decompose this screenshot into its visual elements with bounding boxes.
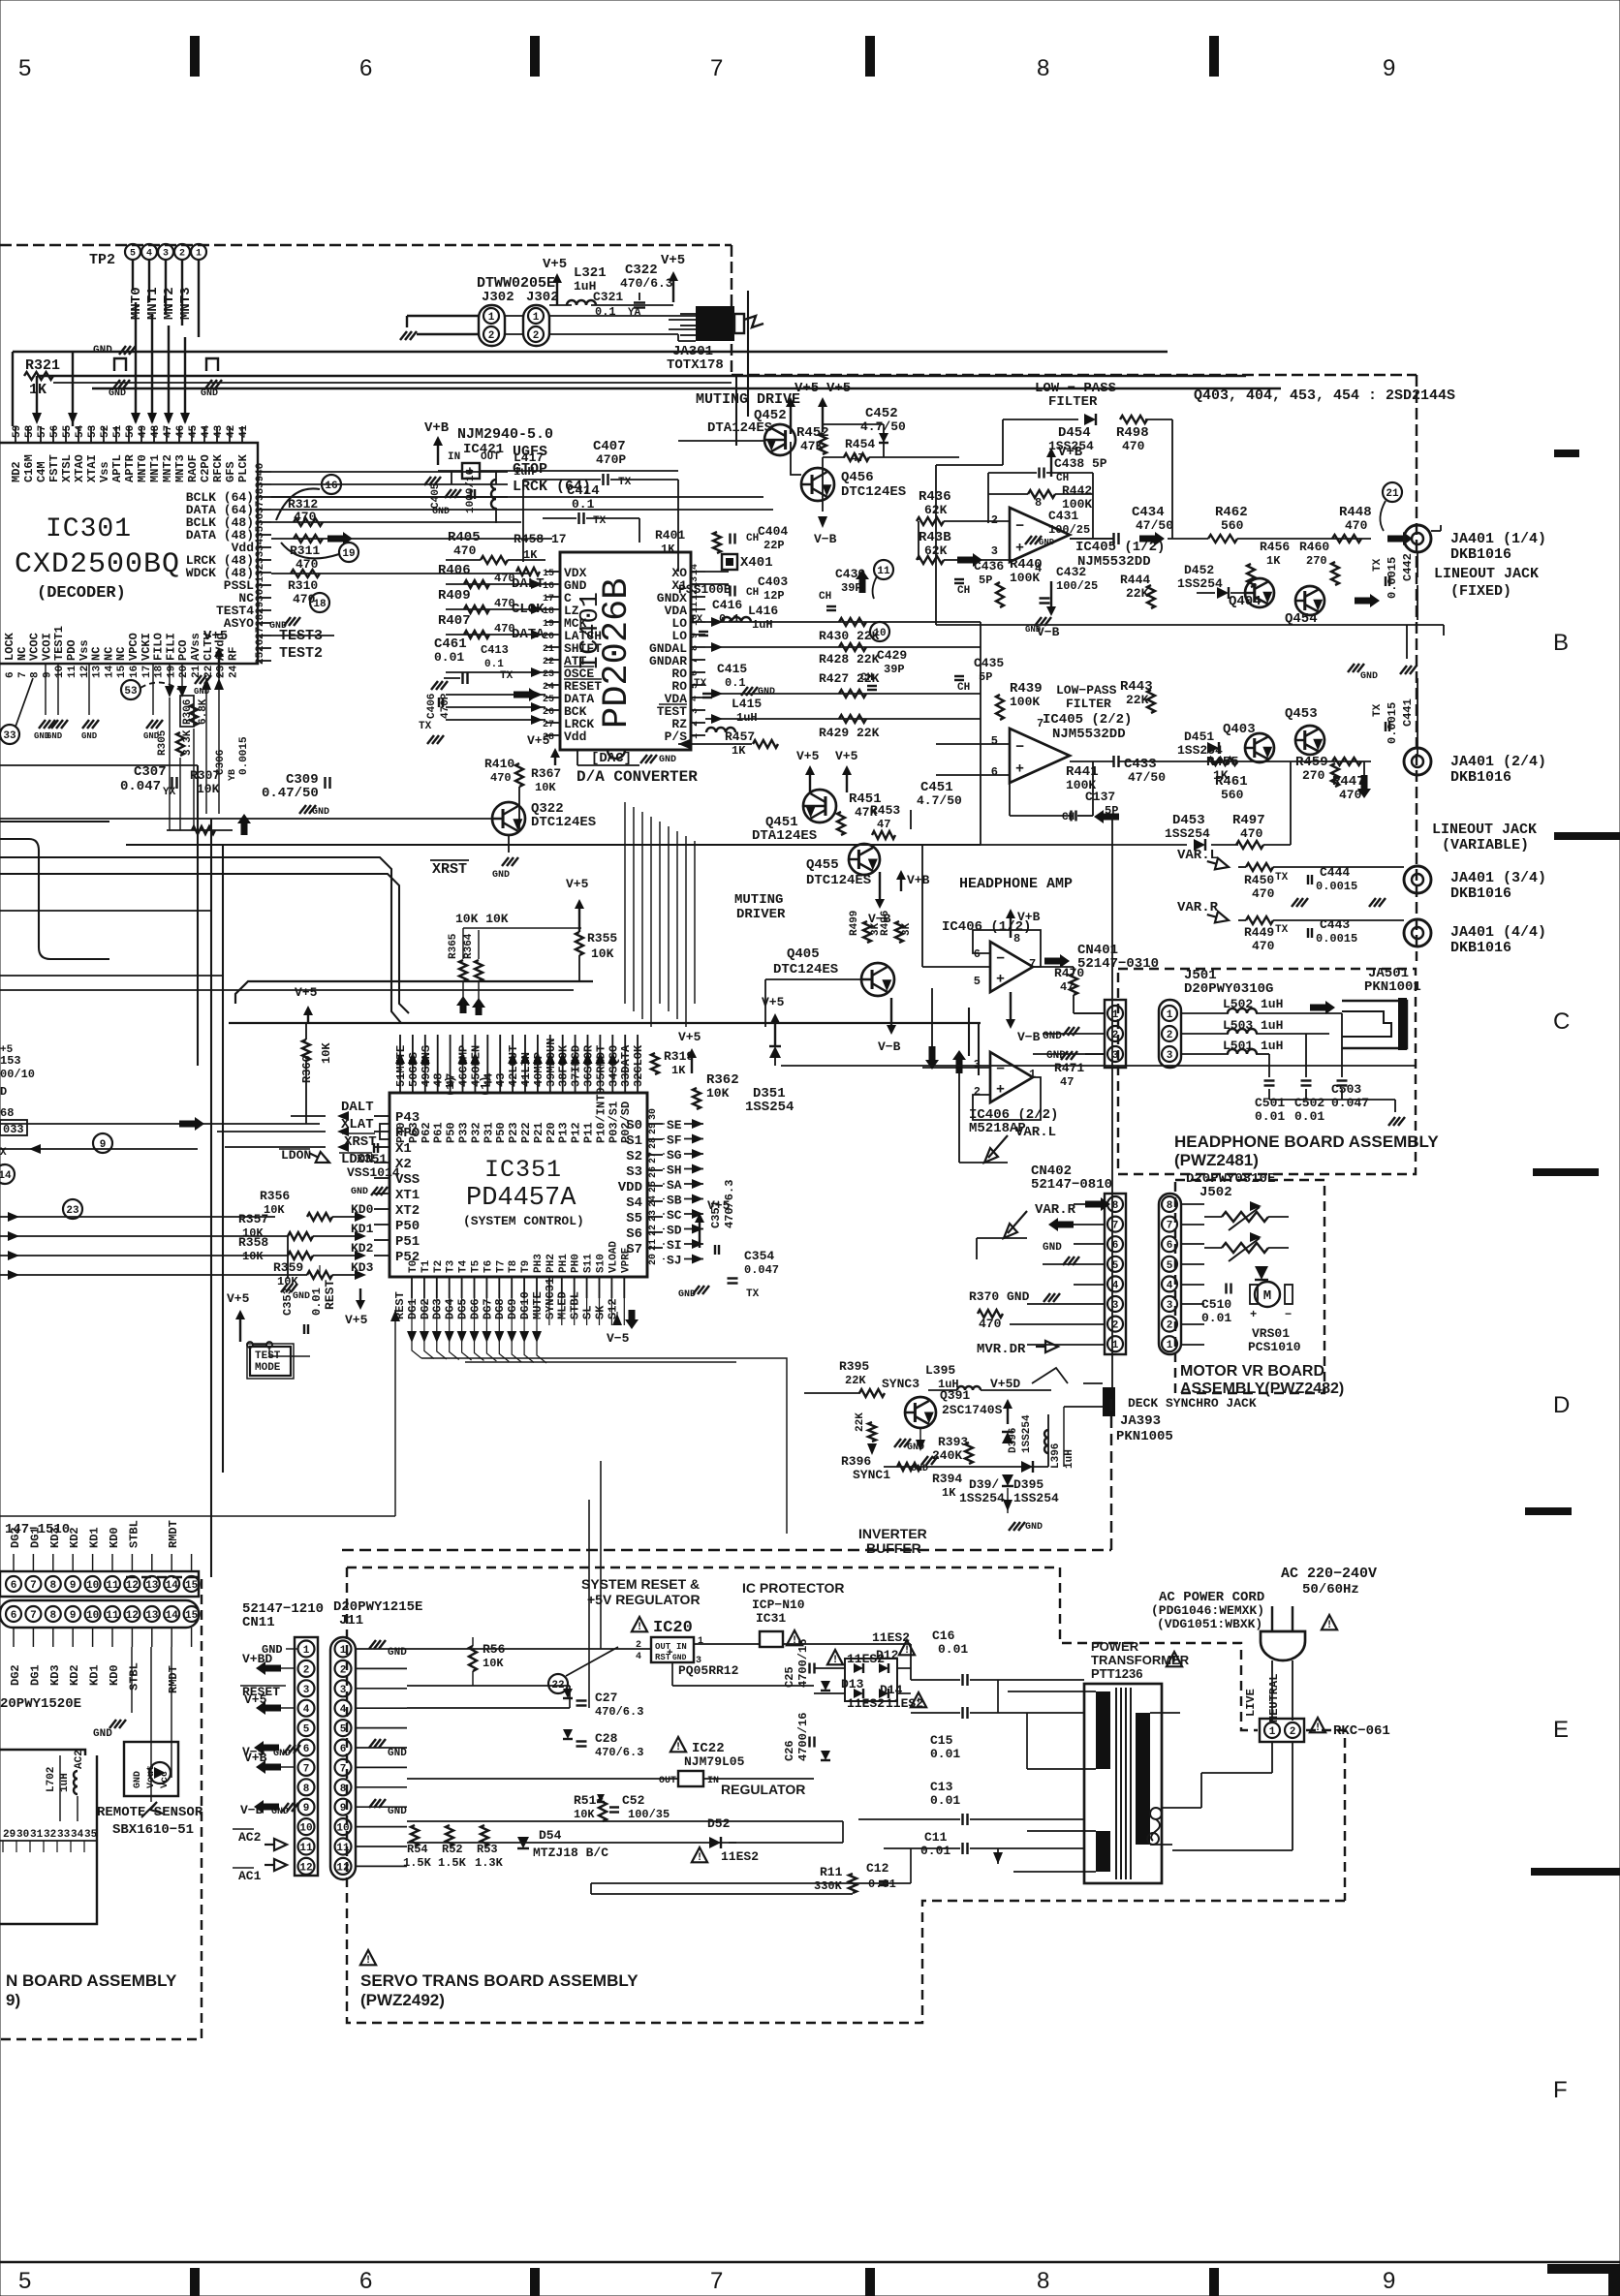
power V+5 c351 [699, 1221, 701, 1248]
transformer primary bar [1096, 1691, 1110, 1769]
svg-text:R53: R53 [477, 1843, 498, 1856]
svg-text:R310: R310 [288, 578, 318, 593]
svg-text:XTSL: XTSL [60, 454, 74, 482]
svg-text:470: 470 [1252, 939, 1275, 953]
svg-text:33: 33 [57, 1829, 71, 1841]
svg-text:R410: R410 [484, 757, 514, 771]
svg-text:9: 9 [303, 1803, 310, 1815]
inductor L502 1uH [1181, 1012, 1229, 1014]
svg-text:330K: 330K [814, 1879, 843, 1893]
svg-text:C25: C25 [783, 1666, 796, 1688]
svg-text:[DAC]: [DAC] [591, 751, 632, 766]
svg-text:6: 6 [974, 947, 981, 961]
wires cn402 left [1074, 1203, 1105, 1205]
svg-text:LOW−PASS: LOW−PASS [1056, 683, 1117, 698]
svg-text:7: 7 [30, 1610, 37, 1622]
svg-text:P62: P62 [420, 1122, 433, 1143]
IC401 right pins [691, 571, 705, 573]
svg-text:R396: R396 [841, 1454, 871, 1469]
svg-text:14: 14 [690, 564, 701, 575]
svg-text:R364: R364 [463, 933, 475, 959]
resistor R498 470 [1120, 416, 1147, 423]
svg-text:22K: 22K [855, 1412, 866, 1432]
svg-text:GND: GND [388, 1647, 407, 1659]
svg-text:V+5: V+5 [661, 253, 685, 268]
svg-text:KD3: KD3 [48, 1527, 62, 1548]
transistor Q403 [1245, 733, 1274, 762]
resistor R52 1.5K [446, 1825, 453, 1846]
resistor R311 470 [294, 535, 323, 543]
svg-text:S5: S5 [626, 1211, 642, 1226]
svg-text:TX: TX [593, 515, 607, 527]
svg-text:R450: R450 [1244, 873, 1274, 887]
svg-text:SYNC1: SYNC1 [853, 1468, 890, 1482]
svg-text:SK: SK [593, 1305, 607, 1319]
svg-text:NJM5532DD: NJM5532DD [1052, 727, 1126, 742]
svg-text:6: 6 [5, 671, 16, 678]
IC351 top pins [399, 1035, 401, 1093]
svg-text:C502: C502 [1294, 1096, 1324, 1110]
svg-text:0.01: 0.01 [930, 1793, 960, 1808]
svg-text:38: 38 [255, 487, 266, 501]
transistor Q322 DTC124ES [492, 802, 525, 835]
svg-text:+5: +5 [0, 1044, 14, 1056]
svg-text:GND: GND [81, 731, 98, 741]
transistor Q453 [1295, 726, 1324, 755]
svg-text:15: 15 [185, 1610, 199, 1622]
svg-text:P23: P23 [507, 1122, 520, 1143]
capacitor C405 [451, 471, 452, 484]
fat arrow left on bus [1094, 810, 1119, 823]
svg-text:27: 27 [255, 627, 266, 639]
power V-B lpf [1050, 581, 1052, 608]
svg-text:GND: GND [133, 1771, 143, 1788]
svg-text:TX: TX [1372, 703, 1384, 717]
svg-text:25: 25 [255, 651, 266, 665]
svg-text:43: 43 [213, 424, 225, 438]
svg-text:58: 58 [24, 424, 36, 438]
svg-text:LDON: LDON [281, 1148, 311, 1163]
svg-text:GND: GND [269, 621, 287, 632]
op-amp IC406 2/2 [990, 1052, 1033, 1102]
svg-text:4: 4 [146, 249, 152, 260]
svg-text:SJ: SJ [667, 1254, 682, 1268]
svg-text:XTAO: XTAO [73, 454, 86, 482]
svg-text:52: 52 [100, 425, 111, 438]
resistor R54 1.5K [411, 1825, 419, 1846]
svg-text:XRST: XRST [344, 1134, 377, 1150]
svg-text:APTR: APTR [123, 453, 137, 482]
svg-text:8: 8 [340, 1784, 347, 1795]
svg-text:S4: S4 [626, 1195, 642, 1211]
transistor q391 emitter gnd [916, 1440, 925, 1451]
svg-text:22K: 22K [1126, 586, 1149, 601]
svg-text:R370 GND: R370 GND [969, 1289, 1030, 1304]
svg-text:GND: GND [47, 731, 63, 741]
svg-text:PH0: PH0 [571, 1254, 582, 1273]
svg-text:−: − [1015, 739, 1024, 756]
svg-text:34: 34 [71, 1829, 84, 1841]
svg-text:55: 55 [62, 424, 74, 438]
warn servo [360, 1950, 376, 1965]
svg-text:SBX1610−51: SBX1610−51 [112, 1822, 194, 1838]
wire v+5 rail down headphone [935, 465, 937, 625]
svg-text:+: + [1250, 1308, 1257, 1321]
svg-text:R458 17: R458 17 [514, 532, 567, 546]
svg-text:C26: C26 [783, 1740, 796, 1761]
j11 right wires [356, 1648, 407, 1650]
svg-text:GND: GND [109, 388, 126, 399]
svg-text:4.7/50: 4.7/50 [917, 793, 962, 808]
svg-text:0.1: 0.1 [719, 612, 740, 626]
svg-text:P61: P61 [432, 1122, 446, 1143]
wires hp in [922, 966, 990, 968]
svg-text:TX: TX [419, 721, 432, 732]
svg-text:26: 26 [648, 1166, 659, 1178]
svg-text:C415: C415 [717, 662, 747, 676]
svg-text:0.0015: 0.0015 [1316, 932, 1357, 946]
svg-text:51: 51 [112, 424, 124, 438]
svg-text:39: 39 [255, 476, 266, 488]
svg-text:29: 29 [255, 602, 266, 614]
svg-text:S1: S1 [626, 1133, 642, 1149]
svg-text:7: 7 [690, 658, 701, 664]
svg-text:L395: L395 [925, 1363, 955, 1378]
svg-text:33: 33 [3, 730, 16, 742]
resistor R449 470 [1246, 916, 1273, 924]
svg-text:MTZJ18 B/C: MTZJ18 B/C [533, 1846, 608, 1860]
node 19 [339, 543, 358, 562]
svg-text:V−B: V−B [1017, 1030, 1041, 1044]
svg-text:!: ! [1326, 1620, 1333, 1631]
svg-text:43: 43 [494, 1073, 508, 1087]
svg-text:47: 47 [163, 425, 174, 438]
net REST vertical [394, 1310, 396, 1516]
svg-text:56: 56 [49, 425, 61, 438]
svg-text:VLOAD: VLOAD [607, 1241, 619, 1273]
svg-text:49SENS: 49SENS [420, 1045, 433, 1087]
svg-text:PCS1010: PCS1010 [1248, 1340, 1301, 1354]
svg-text:42LOUT: 42LOUT [507, 1045, 520, 1087]
wires terminal to transformer [1271, 1742, 1273, 1773]
svg-text:7: 7 [17, 671, 29, 678]
diode vr [1255, 1266, 1268, 1280]
svg-text:DG7: DG7 [481, 1298, 494, 1319]
svg-text:R54: R54 [407, 1843, 428, 1856]
svg-text:14: 14 [104, 665, 115, 678]
svg-text:1: 1 [533, 312, 540, 324]
svg-text:C15: C15 [930, 1733, 953, 1748]
svg-text:!: ! [697, 1852, 703, 1864]
svg-text:KD0: KD0 [351, 1202, 374, 1217]
svg-text:C441: C441 [1401, 698, 1415, 727]
svg-text:P50: P50 [445, 1122, 458, 1143]
svg-text:R453: R453 [870, 803, 900, 818]
svg-text:L396: L396 [1050, 1443, 1062, 1469]
svg-text:D452: D452 [1184, 563, 1214, 577]
svg-text:C11: C11 [924, 1830, 948, 1845]
resistor R450 470 [1246, 863, 1273, 871]
svg-text:11: 11 [877, 566, 890, 577]
power V+B arrow ic421 [437, 444, 439, 465]
svg-text:32: 32 [44, 1829, 56, 1841]
svg-text:22P: 22P [763, 539, 785, 552]
svg-text:!: ! [832, 1655, 839, 1666]
diode D454 1SS254 [1084, 414, 1096, 425]
svg-text:8: 8 [1037, 2268, 1049, 2294]
svg-text:8: 8 [49, 1610, 56, 1622]
svg-text:4700/16: 4700/16 [796, 1639, 810, 1688]
svg-text:17: 17 [141, 666, 153, 678]
svg-text:XTAI: XTAI [85, 454, 99, 482]
svg-text:6: 6 [340, 1744, 347, 1755]
svg-text:8: 8 [303, 1784, 310, 1795]
svg-text:DTC124ES: DTC124ES [531, 815, 596, 830]
svg-text:DRIVER: DRIVER [736, 907, 786, 922]
svg-text:49: 49 [138, 425, 149, 438]
svg-text:KD1: KD1 [88, 1664, 102, 1686]
svg-text:1.5K: 1.5K [438, 1856, 467, 1870]
svg-text:GND: GND [388, 1806, 407, 1817]
svg-text:3: 3 [163, 249, 169, 260]
svg-text:VAR.L: VAR.L [1015, 1125, 1056, 1140]
svg-text:CH: CH [957, 585, 970, 597]
svg-text:41: 41 [238, 424, 250, 438]
svg-text:9: 9 [1383, 2268, 1395, 2294]
svg-text:!: ! [365, 1955, 372, 1967]
svg-text:53: 53 [124, 686, 138, 698]
power V+5 dac [554, 756, 556, 765]
remote sensor box [124, 1742, 178, 1796]
svg-text:1: 1 [1269, 1726, 1276, 1738]
svg-text:R11: R11 [820, 1865, 843, 1879]
svg-text:(PDG1046:WEMXK): (PDG1046:WEMXK) [1151, 1603, 1264, 1618]
svg-text:R499: R499 [849, 911, 860, 936]
resistor R462 560 [1208, 535, 1237, 543]
svg-text:7: 7 [1167, 1221, 1173, 1232]
svg-text:68: 68 [0, 1106, 14, 1120]
svg-text:T0: T0 [408, 1260, 420, 1273]
svg-text:9: 9 [1383, 55, 1395, 81]
motor vr internals [1181, 1203, 1204, 1205]
svg-text:47: 47 [877, 818, 890, 831]
svg-text:20: 20 [648, 1254, 659, 1265]
svg-text:34: 34 [255, 538, 266, 551]
svg-text:10K 10K: 10K 10K [455, 912, 509, 926]
svg-text:R496: R496 [880, 911, 891, 936]
svg-text:F: F [1553, 2077, 1568, 2103]
dashed servo box [347, 1567, 1060, 1568]
svg-text:33DATA: 33DATA [619, 1044, 633, 1087]
svg-text:C353: C353 [281, 1288, 295, 1316]
svg-text:GND: GND [678, 1289, 696, 1300]
svg-text:ASSEMBLY(PWZ2482): ASSEMBLY(PWZ2482) [1180, 1381, 1344, 1397]
fat arrow hp out [1044, 954, 1070, 968]
connector J502 [1159, 1194, 1181, 1354]
svg-text:30: 30 [648, 1108, 659, 1120]
svg-text:V−B: V−B [1037, 625, 1060, 639]
wire right rail var [1111, 817, 1113, 1390]
svg-text:MODE: MODE [255, 1362, 281, 1374]
svg-text:MUTING: MUTING [734, 892, 783, 908]
svg-text:28: 28 [648, 1137, 659, 1149]
svg-text:GND: GND [312, 807, 329, 818]
svg-text:R393: R393 [938, 1435, 968, 1449]
svg-text:(1): (1) [444, 1075, 457, 1097]
svg-text:−: − [1285, 1308, 1292, 1321]
wire gnd bus vertical [1414, 1066, 1416, 1407]
svg-text:29: 29 [648, 1123, 659, 1134]
svg-text:V+5: V+5 [762, 995, 785, 1009]
svg-text:6: 6 [11, 1610, 17, 1622]
jack JA401 1/4 [1404, 525, 1431, 552]
svg-text:PD4457A: PD4457A [466, 1184, 576, 1213]
capacitor C510 0.01 [1225, 1284, 1227, 1294]
svg-text:C405: C405 [430, 482, 442, 509]
svg-text:CH: CH [957, 682, 970, 694]
svg-text:IC PROTECTOR: IC PROTECTOR [742, 1580, 845, 1596]
svg-text:470: 470 [1252, 886, 1275, 901]
svg-text:7: 7 [30, 1580, 37, 1592]
svg-text:DG5: DG5 [456, 1298, 470, 1319]
svg-text:D20PWY0310G: D20PWY0310G [1184, 981, 1273, 997]
svg-text:C13: C13 [930, 1780, 953, 1794]
svg-text:12P: 12P [763, 589, 785, 603]
svg-text:18: 18 [154, 665, 166, 678]
svg-text:470: 470 [293, 592, 316, 606]
resistor R310 470 [291, 570, 320, 577]
svg-text:1: 1 [1167, 1009, 1173, 1021]
svg-text:C2PO: C2PO [199, 454, 212, 482]
svg-text:22: 22 [543, 657, 554, 667]
svg-text:X351: X351 [357, 1152, 387, 1166]
svg-text:47/50: 47/50 [1136, 518, 1173, 533]
svg-text:L502 1uH: L502 1uH [1223, 997, 1283, 1011]
svg-text:REST: REST [323, 1280, 337, 1310]
svg-text:0.01: 0.01 [1255, 1109, 1285, 1124]
svg-text:47/50: 47/50 [1128, 770, 1166, 785]
svg-text:ICP−N10: ICP−N10 [752, 1598, 805, 1612]
svg-text:2: 2 [1167, 1320, 1173, 1332]
node 21 [1383, 482, 1402, 502]
svg-text:IC351: IC351 [484, 1156, 562, 1184]
svg-text:1: 1 [488, 312, 495, 324]
svg-text:R395: R395 [839, 1359, 869, 1374]
svg-text:DECK SYNCHRO JACK: DECK SYNCHRO JACK [1128, 1396, 1257, 1411]
svg-text:C413: C413 [481, 643, 509, 657]
gnd marks j11 [369, 1640, 376, 1649]
svg-text:PH1: PH1 [558, 1254, 570, 1273]
svg-text:C307: C307 [134, 764, 167, 780]
svg-text:TP2: TP2 [89, 252, 115, 268]
svg-text:C442: C442 [1401, 553, 1415, 581]
feedback wire hp2 [973, 1077, 1041, 1120]
svg-text:KD0: KD0 [108, 1664, 121, 1686]
power V+5 r319 [691, 1056, 693, 1073]
svg-text:R460: R460 [1299, 540, 1329, 554]
svg-text:C354: C354 [744, 1249, 774, 1263]
capacitor C444 0.0015 [1307, 875, 1309, 884]
svg-text:LINEOUT JACK: LINEOUT JACK [1432, 822, 1537, 838]
svg-text:GND: GND [388, 1748, 407, 1759]
resistor R447 470 [1332, 758, 1361, 765]
svg-text:P22: P22 [519, 1122, 533, 1143]
svg-text:0.0015: 0.0015 [1316, 880, 1357, 893]
fat arrow down right [1357, 775, 1371, 798]
svg-text:C510: C510 [1201, 1297, 1231, 1312]
svg-text:SERVO TRANS BOARD ASSEMBLY: SERVO TRANS BOARD ASSEMBLY [360, 1971, 639, 1990]
svg-text:PKN1005: PKN1005 [1116, 1429, 1173, 1444]
svg-text:+: + [996, 971, 1005, 987]
svg-text:0.0015: 0.0015 [1386, 557, 1399, 599]
svg-text:CXD2500BQ: CXD2500BQ [15, 548, 180, 581]
svg-text:5: 5 [303, 1724, 310, 1736]
svg-text:20: 20 [543, 632, 554, 642]
op-amp IC401 box [560, 552, 691, 750]
svg-text:4: 4 [636, 1652, 641, 1662]
svg-text:GND: GND [1043, 1031, 1062, 1042]
svg-text:SE: SE [667, 1118, 682, 1132]
right edge section dashes [1554, 450, 1579, 457]
svg-text:C432: C432 [1056, 565, 1086, 579]
svg-text:TX: TX [618, 477, 632, 488]
svg-text:C444: C444 [1320, 865, 1350, 880]
svg-text:D: D [1553, 1392, 1570, 1418]
svg-text:−: − [1015, 518, 1024, 535]
svg-text:NJM2940-5.0: NJM2940-5.0 [457, 426, 553, 443]
svg-text:D54: D54 [539, 1828, 562, 1843]
svg-text:V+B: V+B [424, 420, 450, 436]
svg-text:16: 16 [325, 481, 337, 492]
svg-text:25: 25 [648, 1181, 659, 1193]
svg-text:C351: C351 [709, 1200, 723, 1228]
svg-text:R305: R305 [157, 729, 169, 756]
resistor R427 22K [839, 690, 866, 698]
svg-text:Q404: Q404 [1229, 594, 1262, 609]
svg-text:SC: SC [667, 1208, 682, 1223]
svg-text:50: 50 [125, 425, 137, 438]
svg-text:20: 20 [178, 666, 190, 678]
svg-text:470: 470 [453, 543, 477, 558]
svg-text:NJM5532DD: NJM5532DD [1077, 554, 1151, 570]
svg-text:C406: C406 [426, 694, 438, 719]
svg-text:INVERTER: INVERTER [858, 1526, 927, 1541]
svg-text:MNT2: MNT2 [162, 287, 177, 320]
svg-text:3: 3 [303, 1685, 310, 1696]
svg-text:DKB1016: DKB1016 [1450, 885, 1511, 902]
gnd stubs pins 56 51 [114, 358, 126, 371]
svg-text:C403: C403 [758, 574, 788, 589]
svg-text:39P: 39P [884, 663, 905, 676]
svg-text:GND: GND [293, 1291, 310, 1302]
svg-text:26: 26 [255, 639, 266, 652]
svg-text:1uH: 1uH [59, 1773, 71, 1792]
svg-text:2: 2 [303, 1664, 310, 1676]
svg-text:2: 2 [1167, 1030, 1173, 1041]
diode D452 1SS254 [1217, 587, 1229, 599]
diode D453 1SS254 [1194, 839, 1205, 851]
wires cn401 [1074, 1012, 1105, 1014]
svg-text:MOTOR VR BOARD: MOTOR VR BOARD [1180, 1363, 1324, 1380]
svg-text:Q405: Q405 [787, 946, 820, 962]
svg-text:C438 5P: C438 5P [1054, 456, 1107, 471]
svg-text:10: 10 [86, 1610, 99, 1622]
svg-text:0.01: 0.01 [310, 1288, 324, 1316]
svg-text:11: 11 [690, 602, 701, 613]
svg-text:GND: GND [1043, 1242, 1062, 1254]
svg-text:V−B: V−B [814, 532, 837, 546]
svg-text:3K: 3K [901, 922, 913, 936]
